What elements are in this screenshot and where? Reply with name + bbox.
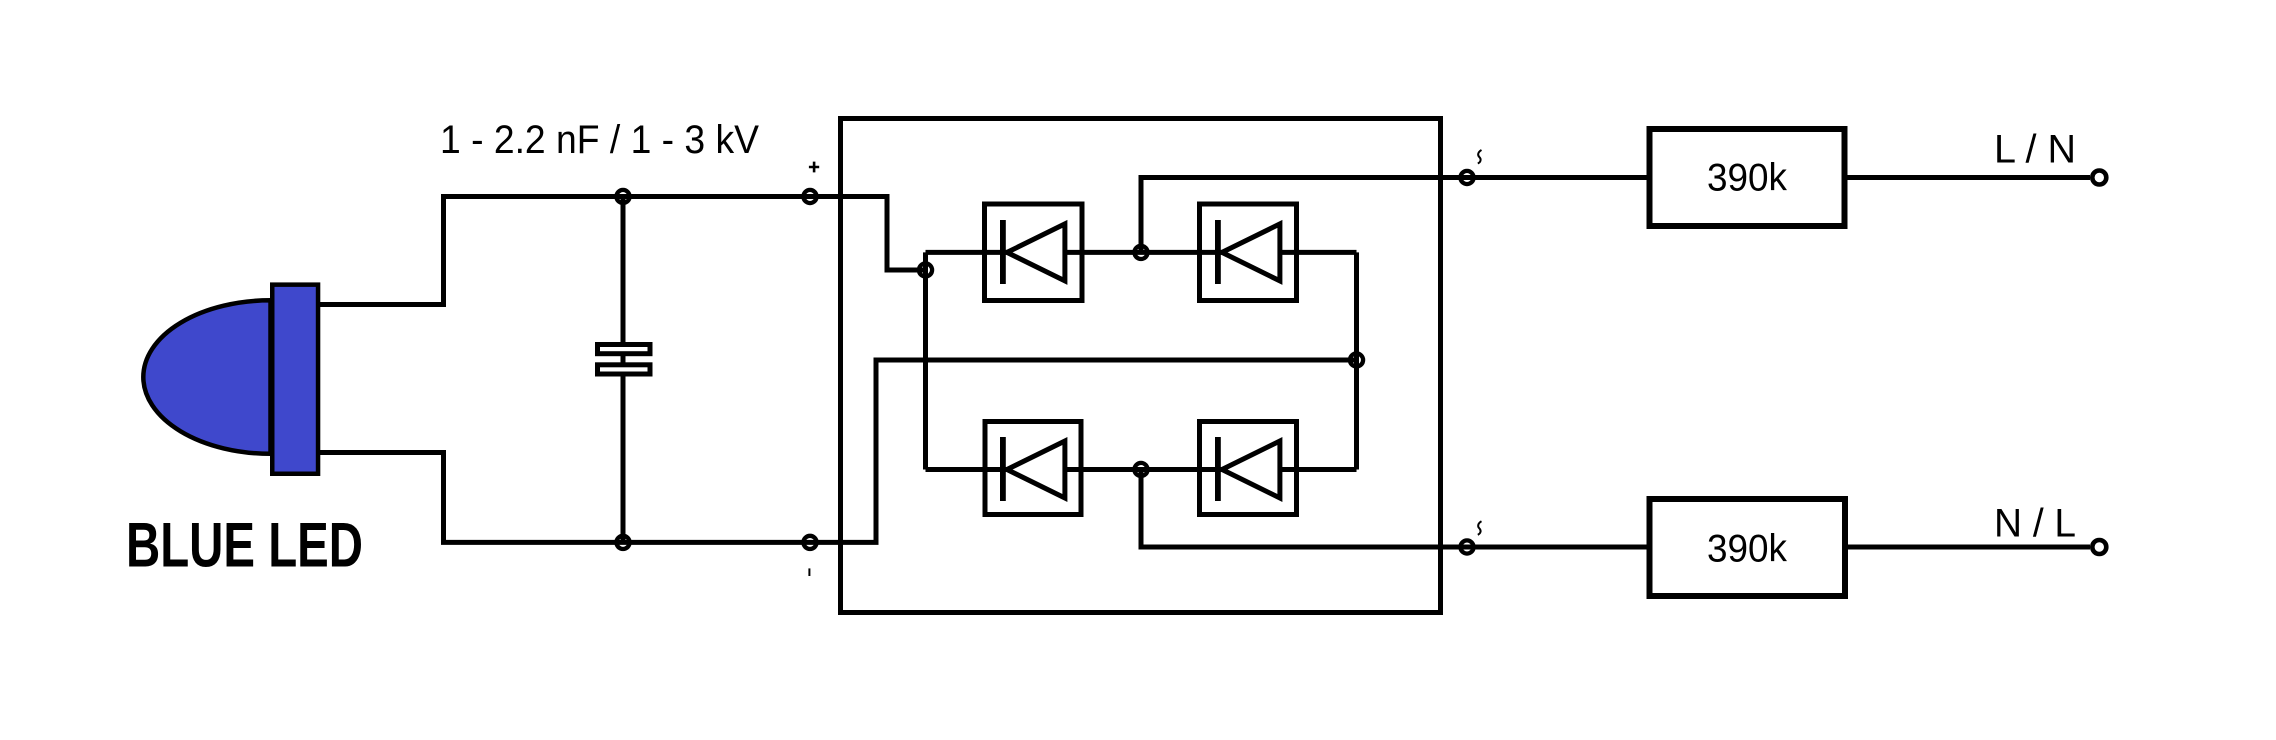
svg-text:1 - 2.2 nF / 1 - 3 kV: 1 - 2.2 nF / 1 - 3 kV [440,118,759,162]
svg-text:390k: 390k [1707,156,1787,199]
svg-text:390k: 390k [1707,528,1787,571]
svg-text:BLUE LED: BLUE LED [126,511,363,581]
svg-text:L / N: L / N [1994,128,2076,172]
svg-text:N / L: N / L [1994,502,2076,546]
